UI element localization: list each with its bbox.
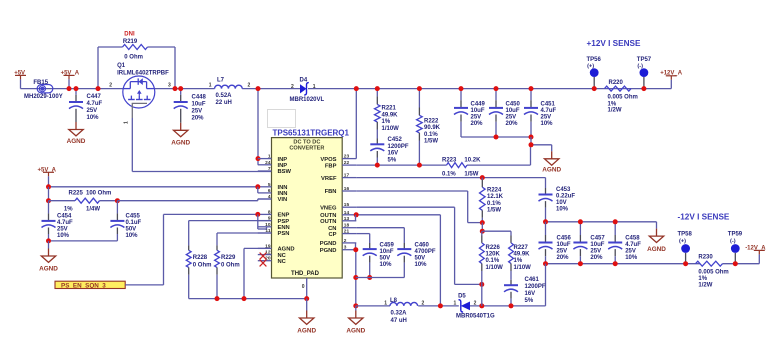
junction C451 / bus — [529, 135, 534, 140]
svg-text:4.7uF: 4.7uF — [541, 108, 557, 114]
svg-text:D5: D5 — [458, 293, 466, 299]
svg-text:C452: C452 — [388, 137, 403, 143]
junction AGND branch — [529, 142, 534, 147]
resistor R227 — [509, 231, 532, 285]
svg-text:0.1uF: 0.1uF — [126, 220, 142, 226]
svg-text:120K: 120K — [486, 251, 501, 257]
junction divider node — [480, 229, 485, 234]
test point TP56 — [587, 57, 602, 88]
svg-text:C448: C448 — [192, 95, 207, 101]
svg-text:50V: 50V — [415, 256, 426, 262]
svg-text:10uF: 10uF — [192, 102, 206, 108]
svg-text:2: 2 — [248, 83, 251, 89]
ferrite bead FB15 — [24, 80, 63, 100]
svg-text:R221: R221 — [382, 106, 397, 112]
svg-text:R223: R223 — [442, 157, 457, 163]
svg-text:CONVERTER: CONVERTER — [289, 146, 324, 152]
svg-text:4700PF: 4700PF — [415, 249, 436, 255]
capacitor C447 — [69, 89, 103, 122]
svg-text:R224: R224 — [487, 188, 502, 194]
svg-text:24: 24 — [265, 160, 271, 166]
power flag +12V_A — [660, 71, 683, 89]
resistor R222 — [417, 89, 441, 166]
capacitor C461 — [504, 277, 546, 306]
svg-text:1/10W: 1/10W — [382, 126, 400, 132]
wire FBP net — [356, 164, 446, 166]
svg-text:25V: 25V — [625, 248, 636, 254]
svg-text:0 Ohm: 0 Ohm — [124, 55, 143, 61]
svg-text:0: 0 — [302, 284, 305, 290]
junction C449 / rail — [459, 86, 464, 91]
svg-text:49.9K: 49.9K — [514, 251, 531, 257]
svg-text:IRLML6402TRPBF: IRLML6402TRPBF — [117, 70, 169, 76]
svg-text:MH2029-100Y: MH2029-100Y — [24, 94, 63, 100]
svg-text:1: 1 — [454, 300, 457, 306]
svg-text:0.005 Ohm: 0.005 Ohm — [698, 270, 728, 276]
svg-text:INN: INN — [278, 185, 288, 191]
svg-text:15: 15 — [344, 202, 350, 208]
diode D4 MBR1020VL — [290, 78, 325, 104]
svg-text:1%: 1% — [698, 276, 707, 282]
svg-text:1/2W: 1/2W — [698, 282, 712, 288]
svg-text:20%: 20% — [471, 121, 484, 127]
wire -12V output rail — [546, 263, 760, 265]
svg-text:10%: 10% — [57, 233, 70, 239]
svg-text:1/5W: 1/5W — [424, 139, 438, 145]
svg-text:0.22uF: 0.22uF — [556, 193, 575, 199]
svg-text:4.7uF: 4.7uF — [625, 242, 641, 248]
junction VNEG / R226 lead — [479, 282, 484, 287]
capacitor C458 — [608, 222, 641, 264]
resistor R230 — [696, 254, 729, 288]
junction PGND pins — [353, 247, 358, 252]
ground AGND under C448 — [171, 123, 190, 147]
svg-text:1200PF: 1200PF — [388, 144, 409, 150]
svg-text:3: 3 — [344, 245, 347, 251]
ground AGND under PGND — [346, 306, 365, 335]
svg-text:PS_EN_SQN_3: PS_EN_SQN_3 — [61, 282, 106, 289]
svg-text:C451: C451 — [541, 102, 556, 108]
svg-text:L8: L8 — [390, 298, 398, 304]
svg-text:1: 1 — [268, 154, 271, 160]
wire inverter output rail — [356, 305, 546, 307]
capacitor C449 — [454, 89, 486, 137]
junction TP58 / -12V rail — [683, 261, 688, 266]
junction C458 / -12V rail — [613, 261, 618, 266]
svg-text:47 uH: 47 uH — [391, 318, 407, 324]
junction TP57 / rail — [641, 86, 646, 91]
resistor R220 — [605, 80, 638, 114]
svg-text:PSP: PSP — [278, 219, 290, 225]
svg-text:16V: 16V — [525, 291, 536, 297]
capacitor C451 — [524, 89, 557, 137]
svg-text:10V: 10V — [556, 200, 567, 206]
svg-text:TP57: TP57 — [637, 57, 652, 63]
svg-text:MBR1020VL: MBR1020VL — [290, 97, 325, 103]
svg-text:20%: 20% — [506, 121, 519, 127]
wire flying cap ground bus — [356, 277, 405, 279]
junction ENP — [255, 212, 260, 217]
svg-text:25V: 25V — [192, 109, 203, 115]
svg-text:2: 2 — [291, 84, 294, 90]
resistor R228 — [186, 221, 211, 299]
no-connect X pin 12 — [260, 253, 267, 260]
capacitor C459 — [363, 242, 395, 277]
svg-text:10nF: 10nF — [380, 249, 394, 255]
svg-text:3: 3 — [168, 83, 171, 89]
resistor R224 — [480, 178, 504, 223]
wire CP net — [356, 234, 369, 250]
svg-text:R230: R230 — [698, 254, 713, 260]
svg-text:ENP: ENP — [278, 213, 290, 219]
white annotation box above IC — [268, 110, 296, 128]
svg-text:16: 16 — [344, 186, 350, 192]
junction C458 / top bus — [613, 219, 618, 224]
inductor L7 — [209, 78, 251, 107]
transistor Q1 IRLML6402TRPBF — [109, 63, 171, 124]
inductor L8 — [384, 298, 424, 324]
THD_PAD pin 0 stub — [302, 278, 307, 299]
svg-text:10%: 10% — [625, 255, 638, 261]
svg-text:17: 17 — [344, 173, 350, 179]
svg-text:AGND: AGND — [297, 328, 316, 335]
junction C453 / C456 node — [543, 219, 548, 224]
power flag +5V_A mid — [38, 167, 57, 187]
svg-text:C453: C453 — [556, 187, 571, 193]
svg-text:2: 2 — [344, 238, 347, 244]
diode D5 MBR0540T1G — [454, 293, 495, 319]
svg-text:20%: 20% — [557, 255, 570, 261]
junction THD_PAD / ground bus — [304, 296, 309, 301]
wire PGND pins down — [355, 243, 357, 306]
svg-text:4.7uF: 4.7uF — [57, 220, 73, 226]
svg-text:10%: 10% — [87, 115, 100, 121]
svg-text:6: 6 — [268, 188, 271, 194]
svg-text:AGND: AGND — [171, 139, 190, 146]
wire R225 to VIN — [117, 199, 271, 201]
svg-text:1%: 1% — [514, 258, 523, 264]
svg-text:0 Ohm: 0 Ohm — [221, 262, 240, 268]
svg-text:R229: R229 — [221, 255, 236, 261]
svg-text:12.1K: 12.1K — [487, 194, 504, 200]
net label PS_EN_SQN_3 — [55, 281, 125, 289]
svg-text:L7: L7 — [217, 78, 225, 84]
svg-text:8: 8 — [268, 209, 271, 215]
svg-text:2: 2 — [474, 300, 477, 306]
junction C452 / FBP — [375, 163, 380, 168]
svg-text:0.32A: 0.32A — [391, 311, 408, 317]
svg-text:10%: 10% — [556, 206, 569, 212]
junction VPOS / rail — [354, 86, 359, 91]
wire pin13 jog — [355, 215, 357, 221]
svg-text:10uF: 10uF — [471, 108, 485, 114]
IC right pin stubs, numbers and names — [320, 154, 357, 254]
svg-text:C456: C456 — [557, 235, 572, 241]
svg-text:0.1%: 0.1% — [442, 172, 456, 178]
svg-text:R228: R228 — [193, 255, 208, 261]
svg-text:5%: 5% — [525, 298, 534, 304]
svg-text:VREF: VREF — [321, 176, 337, 182]
svg-text:ENN: ENN — [278, 225, 290, 231]
junction R221 / rail — [375, 86, 380, 91]
wire INN pin6 jog — [257, 187, 259, 193]
capacitor C457 — [573, 222, 605, 264]
svg-text:1%: 1% — [382, 119, 391, 125]
junction FBN / R224 bottom — [480, 220, 485, 225]
svg-text:25V: 25V — [557, 248, 568, 254]
wire CN net — [356, 228, 404, 249]
svg-text:MBR0540T1G: MBR0540T1G — [456, 313, 495, 319]
svg-text:AGND: AGND — [647, 246, 666, 253]
junction R222 / FBP — [417, 163, 422, 168]
svg-text:1/10W: 1/10W — [486, 265, 504, 271]
junction R222 / rail — [417, 86, 422, 91]
junction OUTN pins 13-14 — [354, 212, 359, 217]
no-connect X pin 20 — [260, 260, 267, 267]
svg-text:1%: 1% — [608, 101, 617, 107]
svg-text:0.1%: 0.1% — [487, 201, 501, 207]
svg-text:VIN: VIN — [278, 197, 288, 203]
svg-text:R222: R222 — [424, 118, 439, 124]
junction C454 / ground — [46, 238, 51, 243]
wire -12V rail down to D5 rail — [545, 264, 547, 306]
ground AGND near C458 — [647, 229, 666, 254]
svg-text:25V: 25V — [541, 114, 552, 120]
wire +5V_A down to R225 — [48, 187, 50, 201]
svg-text:+12V I SENSE: +12V I SENSE — [587, 39, 641, 48]
svg-text:THD_PAD: THD_PAD — [291, 271, 320, 277]
svg-text:BSW: BSW — [278, 169, 292, 175]
svg-text:50V: 50V — [126, 227, 137, 233]
junction C450 / rail — [494, 86, 499, 91]
capacitor C452 — [370, 137, 409, 165]
wire AGND drop -12V bank — [656, 222, 658, 229]
junction L7 node / rail — [256, 86, 261, 91]
junction R225 left — [46, 198, 51, 203]
wire PSP to R228 — [189, 220, 272, 222]
junction +5V_A / INN — [46, 184, 51, 189]
svg-text:1/2W: 1/2W — [608, 108, 622, 114]
svg-text:PGND: PGND — [320, 241, 337, 247]
svg-text:50V: 50V — [380, 256, 391, 262]
resistor R223 — [442, 157, 481, 177]
svg-text:NC: NC — [278, 259, 287, 265]
junction R224 / VREF — [480, 175, 485, 180]
svg-text:10uF: 10uF — [506, 108, 520, 114]
svg-text:10uF: 10uF — [590, 242, 604, 248]
wire VREF net — [356, 178, 545, 195]
svg-text:22: 22 — [344, 160, 350, 166]
svg-text:C450: C450 — [506, 102, 521, 108]
svg-text:10.2K: 10.2K — [464, 157, 481, 163]
junction OUTN / rail — [438, 303, 443, 308]
junction R229 / ground bus — [215, 296, 220, 301]
svg-text:25V: 25V — [471, 114, 482, 120]
svg-text:FB15: FB15 — [33, 80, 48, 86]
ground AGND under C447 — [67, 122, 86, 145]
wire R224 bottom to divider node — [481, 223, 483, 232]
wire Q1 gate to BSW — [132, 118, 271, 172]
ground AGND under C454 — [39, 241, 58, 273]
svg-text:2: 2 — [109, 83, 112, 89]
svg-text:C461: C461 — [525, 277, 540, 283]
svg-text:16V: 16V — [388, 151, 399, 157]
svg-text:1: 1 — [313, 84, 316, 90]
junction AGND branch / ground bus — [242, 296, 247, 301]
svg-text:INP: INP — [278, 157, 288, 163]
svg-text:90.9K: 90.9K — [424, 125, 441, 131]
svg-text:1/5W: 1/5W — [464, 172, 478, 178]
svg-text:21: 21 — [344, 229, 350, 235]
wire INN net — [49, 186, 258, 188]
svg-text:C447: C447 — [87, 94, 102, 100]
svg-text:0.005 Ohm: 0.005 Ohm — [608, 95, 638, 101]
svg-text:PGND: PGND — [320, 248, 337, 254]
wire analog ground bus under IC — [189, 298, 307, 300]
svg-text:18: 18 — [344, 223, 350, 229]
svg-text:10uF: 10uF — [557, 242, 571, 248]
wire divider node to R227 — [482, 230, 511, 232]
ground AGND under THD_PAD — [297, 299, 316, 335]
svg-text:1%: 1% — [64, 206, 73, 212]
junction C448 / rail — [178, 86, 183, 91]
svg-text:R219: R219 — [123, 39, 138, 45]
svg-text:INP: INP — [278, 163, 288, 169]
resistor R229 — [215, 250, 240, 298]
svg-text:5: 5 — [268, 182, 271, 188]
svg-text:TP59: TP59 — [728, 232, 743, 238]
svg-text:0.52A: 0.52A — [216, 93, 233, 99]
svg-text:2: 2 — [422, 301, 425, 307]
junction PGND / flying cap bus — [353, 275, 358, 280]
svg-text:CP: CP — [328, 232, 336, 238]
junction C457 / -12V rail — [578, 261, 583, 266]
svg-text:AGND: AGND — [542, 167, 561, 174]
junction R225 right / C455 — [115, 198, 120, 203]
svg-text:25V: 25V — [506, 114, 517, 120]
test point TP59 — [728, 232, 743, 264]
junction C456 / -12V rail — [543, 261, 548, 266]
wire bus to AGND branch — [531, 137, 552, 151]
svg-text:AGND: AGND — [39, 266, 58, 273]
wire FBN net — [356, 191, 482, 223]
svg-text:Q1: Q1 — [117, 63, 126, 69]
svg-text:INN: INN — [278, 191, 288, 197]
svg-text:0.1%: 0.1% — [486, 258, 500, 264]
resistor R225 — [49, 191, 118, 213]
svg-text:PSN: PSN — [278, 231, 290, 237]
resistor R219 (DNI 0 Ohm) — [98, 32, 175, 89]
wire VNEG net — [356, 207, 482, 284]
wire OUTN net — [356, 215, 440, 306]
resistor R221 — [375, 89, 400, 145]
capacitor C450 — [489, 89, 521, 137]
svg-text:22 uH: 22 uH — [216, 100, 232, 106]
capacitor C456 — [539, 222, 572, 264]
junction TP59 / -12V rail — [733, 261, 738, 266]
svg-text:C458: C458 — [625, 235, 640, 241]
svg-text:FBP: FBP — [325, 163, 337, 169]
svg-text:C449: C449 — [471, 102, 486, 108]
wire PSN to R229 — [217, 233, 272, 250]
svg-text:-12V I SENSE: -12V I SENSE — [678, 213, 730, 222]
svg-text:C459: C459 — [380, 242, 395, 248]
wire L7 node down to INP pins — [257, 89, 259, 165]
svg-text:NC: NC — [278, 253, 287, 259]
svg-text:R226: R226 — [486, 245, 501, 251]
capacitor C454 — [42, 201, 74, 241]
svg-text:10%: 10% — [380, 262, 393, 268]
wire C454-C455 ground bus — [49, 240, 118, 242]
capacitor C455 — [110, 201, 141, 241]
wire D4 to +12V_A flag — [308, 88, 671, 90]
svg-text:100 Ohm: 100 Ohm — [86, 191, 111, 197]
svg-text:25V: 25V — [87, 108, 98, 114]
ground AGND near C451 — [542, 151, 561, 173]
svg-text:VNEG: VNEG — [320, 205, 337, 211]
wire PS_EN_SQN_3 to ENP — [125, 214, 258, 285]
junction C450 / bus — [494, 135, 499, 140]
svg-text:TP56: TP56 — [587, 57, 602, 63]
wire output cap ground bus — [461, 136, 531, 138]
svg-text:20%: 20% — [590, 255, 603, 261]
svg-text:AGND: AGND — [346, 328, 365, 335]
svg-text:C460: C460 — [415, 242, 430, 248]
svg-text:23: 23 — [344, 154, 350, 160]
wire AGND pin19 branch — [244, 248, 272, 298]
capacitor C448 — [174, 89, 207, 123]
svg-text:7: 7 — [268, 166, 271, 172]
svg-text:1/10W: 1/10W — [514, 265, 532, 271]
svg-text:VPOS: VPOS — [320, 157, 336, 163]
wire ENP to PSP to ENN — [258, 214, 267, 229]
junction C457 / top bus — [578, 219, 583, 224]
junction C447 / rail — [74, 86, 79, 91]
svg-text:C454: C454 — [57, 213, 72, 219]
svg-text:TP58: TP58 — [678, 232, 693, 238]
junction D5 / R226 — [479, 303, 484, 308]
capacitor C453 — [539, 187, 576, 222]
op-amp U1 TPS65131TRGERQ1 DC-DC converter IC — [272, 129, 350, 278]
svg-text:(-): (-) — [730, 238, 736, 244]
svg-text:C457: C457 — [590, 235, 605, 241]
svg-text:1: 1 — [124, 121, 130, 124]
svg-text:13: 13 — [344, 216, 350, 222]
svg-text:5%: 5% — [388, 157, 397, 163]
svg-text:10%: 10% — [415, 262, 428, 268]
wire FBP right segment to riser — [467, 145, 531, 165]
junction C461 / rail — [509, 303, 514, 308]
resistor R226 — [479, 231, 503, 306]
wire VPOS pin23 up to rail — [355, 89, 357, 159]
wire +5V input rail segment — [21, 88, 123, 90]
svg-text:25V: 25V — [590, 248, 601, 254]
junction +5V_A / rail — [67, 86, 72, 91]
svg-text:(+): (+) — [679, 238, 686, 244]
svg-text:AGND: AGND — [278, 247, 295, 253]
junction INP pin1 — [256, 156, 261, 161]
svg-text:1200PF: 1200PF — [525, 284, 546, 290]
svg-text:D4: D4 — [300, 78, 308, 84]
svg-text:FBN: FBN — [325, 189, 337, 195]
svg-text:0 Ohm: 0 Ohm — [193, 262, 212, 268]
junction C459 / bus — [367, 275, 372, 280]
svg-text:R227: R227 — [514, 245, 529, 251]
svg-text:10%: 10% — [541, 121, 554, 127]
svg-text:1: 1 — [209, 83, 212, 89]
power flag +5V — [14, 70, 26, 88]
junction R219 right / rail — [173, 86, 178, 91]
